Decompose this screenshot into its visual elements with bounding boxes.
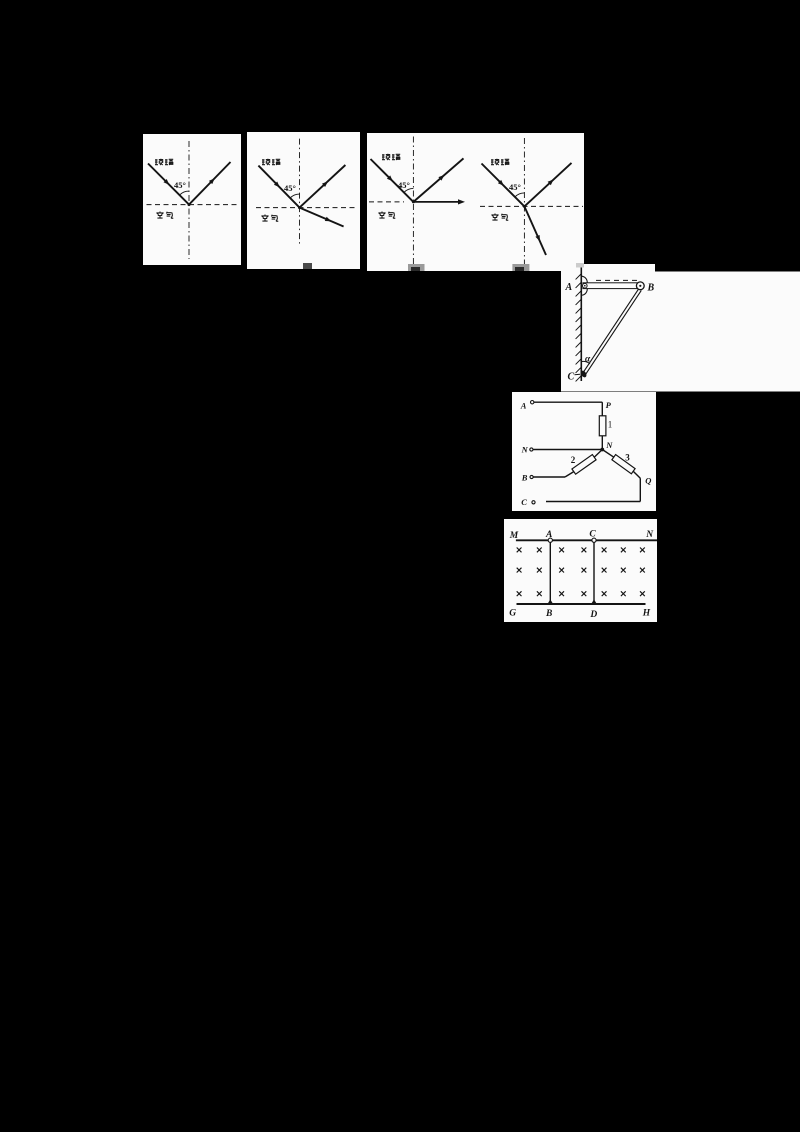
svg-text:C: C [589, 529, 596, 539]
svg-text:G: G [509, 608, 516, 618]
svg-text:M: M [509, 531, 519, 541]
svg-text:Q: Q [645, 476, 651, 486]
svg-text:α: α [585, 355, 591, 365]
svg-text:H: H [642, 608, 651, 618]
svg-text:2: 2 [571, 455, 576, 465]
svg-text:A: A [520, 401, 527, 411]
svg-text:B: B [545, 609, 552, 619]
svg-text:N: N [521, 445, 529, 455]
svg-text:3: 3 [625, 452, 630, 462]
svg-text:B: B [521, 472, 528, 482]
svg-text:A: A [545, 530, 552, 540]
svg-text:N: N [645, 530, 654, 540]
svg-text:45°: 45° [398, 180, 410, 190]
svg-text:C: C [568, 372, 575, 383]
svg-text:N: N [605, 440, 613, 450]
svg-text:45°: 45° [284, 183, 296, 193]
svg-text:45°: 45° [509, 182, 521, 192]
svg-text:A: A [565, 282, 573, 293]
svg-text:45°: 45° [174, 180, 186, 190]
svg-text:C: C [521, 497, 527, 507]
svg-text:B: B [647, 283, 655, 294]
svg-text:D: D [589, 610, 597, 620]
svg-text:1: 1 [608, 420, 613, 430]
svg-text:P: P [606, 400, 612, 410]
